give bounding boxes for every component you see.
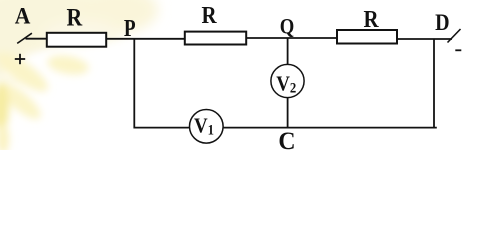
svg-text:P: P: [124, 15, 136, 42]
bottom wire P to V1: [134, 127, 191, 129]
wire R1 to P to R2: [107, 38, 186, 40]
svg-text:R: R: [66, 4, 83, 32]
voltmeter V2: [271, 64, 304, 97]
bottom wire V1 to C to D: [223, 127, 437, 129]
resistor R2: [185, 32, 246, 45]
wire R3 to D terminal: [398, 38, 453, 40]
wire D down: [433, 39, 435, 129]
wire A to R1: [26, 38, 48, 40]
plus sign: [15, 58, 25, 60]
svg-text:R: R: [363, 6, 379, 33]
wire V2 to C: [287, 98, 289, 129]
wire R2 to Q to R3: [247, 37, 338, 39]
terminal A blade: [17, 33, 32, 43]
svg-text:C: C: [278, 127, 295, 150]
resistor R1: [47, 33, 106, 47]
svg-text:A: A: [15, 3, 31, 29]
voltmeter V1: [190, 110, 224, 144]
resistor R3: [337, 30, 397, 44]
minus sign: [455, 49, 461, 51]
svg-text:Q: Q: [280, 15, 295, 39]
wire P down: [133, 38, 135, 128]
terminal D blade: [448, 29, 461, 43]
svg-text:D: D: [435, 9, 449, 35]
svg-text:R: R: [201, 2, 217, 29]
wire Q down to V2: [287, 38, 289, 66]
